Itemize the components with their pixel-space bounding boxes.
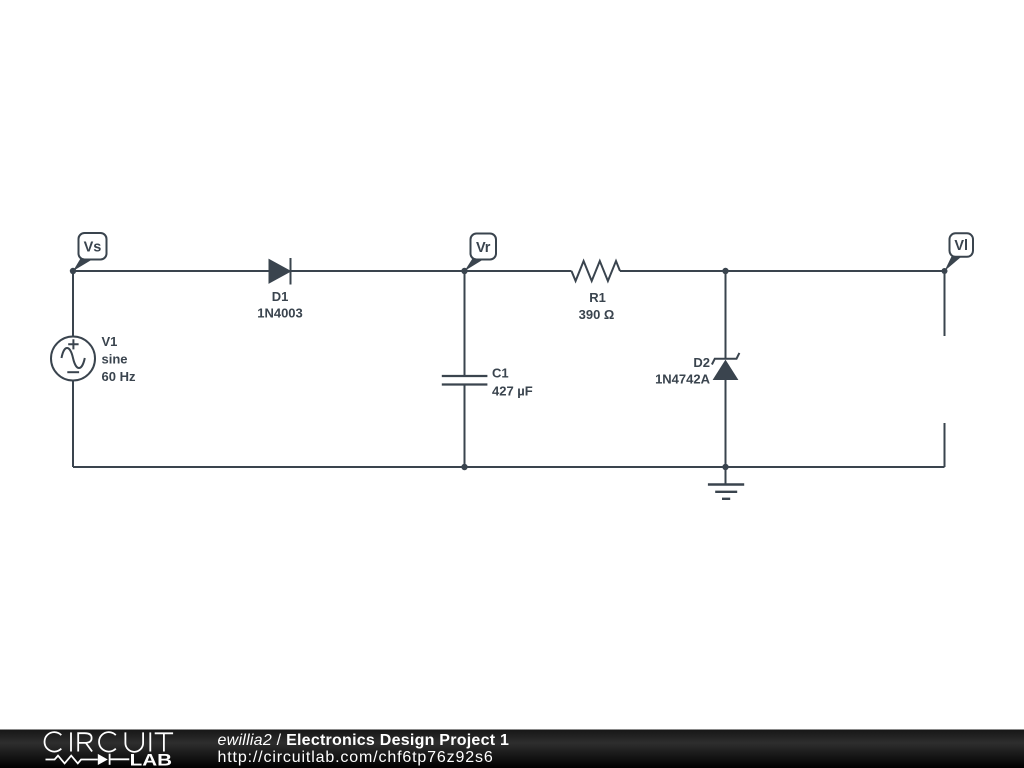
svg-text:R1: R1 [589, 290, 606, 305]
voltage source V1 [51, 337, 95, 381]
svg-text:1N4742A: 1N4742A [655, 372, 711, 387]
node flag Vl [945, 233, 974, 271]
wire bottom rail [73, 466, 945, 468]
svg-text:D1: D1 [272, 289, 289, 304]
wire right branch upper (Vl node down to open terminal) [944, 271, 946, 336]
ground [708, 485, 744, 499]
logo resistor-diode squiggle [46, 754, 130, 765]
capacitor C1 [442, 376, 488, 385]
label C1 427 uF [492, 366, 533, 399]
svg-text:1N4003: 1N4003 [257, 306, 303, 321]
svg-text:390 Ω: 390 Ω [579, 307, 615, 322]
logo diode triangle [98, 754, 108, 765]
CircuitLab logo wordmark CIRCUIT (drawn thin letters) [45, 732, 174, 752]
zener diode D2 [712, 353, 740, 380]
resistor R1 [572, 261, 621, 281]
svg-text:Vl: Vl [954, 238, 968, 254]
node junction dot D2 bottom [722, 464, 728, 470]
svg-text:C1: C1 [492, 366, 509, 381]
wire top rail segment 1 (Vs node to D1) [73, 270, 269, 272]
wire left branch upper (Vs node to V1 top) [72, 271, 74, 337]
svg-text:http://circuitlab.com/chf6tp76: http://circuitlab.com/chf6tp76z92s6 [218, 749, 494, 766]
svg-text:LAB: LAB [130, 750, 172, 768]
node flag Vs [73, 233, 107, 271]
node junction dot C1 bottom [461, 464, 467, 470]
wire right branch lower (open terminal to bottom rail) [944, 423, 946, 467]
svg-text:ewillia2 / Electronics Design: ewillia2 / Electronics Design Project 1 [218, 732, 510, 749]
wire top rail segment 2 (D1 to R1) [291, 270, 572, 272]
node flag Vr [465, 234, 497, 272]
wire C1 branch upper (Vr node to C1 top plate) [464, 271, 466, 376]
svg-text:sine: sine [102, 352, 128, 367]
node junction dot top (D2 branch) [722, 268, 728, 274]
svg-text:60 Hz: 60 Hz [102, 369, 136, 384]
node junction dot Vl [942, 268, 948, 274]
footer bar [0, 730, 1024, 768]
node junction dot Vr [461, 268, 467, 274]
node junction dot Vs [70, 268, 76, 274]
svg-text:V1: V1 [102, 334, 118, 349]
diode D1 [269, 258, 291, 285]
label V1 sine 60 Hz [102, 334, 136, 384]
wire C1 branch lower (C1 bottom plate to bottom rail) [464, 385, 466, 468]
wire left branch lower (V1 bottom to bottom rail) [72, 381, 74, 468]
svg-text:Vr: Vr [476, 240, 491, 256]
wire ground stub [725, 467, 727, 484]
svg-text:427 µF: 427 µF [492, 384, 533, 399]
svg-text:Vs: Vs [84, 240, 102, 256]
svg-text:D2: D2 [693, 355, 710, 370]
label D1 1N4003 [257, 289, 303, 321]
label R1 390 ohm [579, 290, 615, 322]
wire D2 branch lower (zener anode to bottom rail) [725, 380, 727, 468]
wire D2 branch upper (junction to zener cathode) [725, 271, 727, 359]
wire top rail segment 3 (R1 to Vl node) [620, 270, 945, 272]
label D2 1N4742A [655, 355, 711, 387]
